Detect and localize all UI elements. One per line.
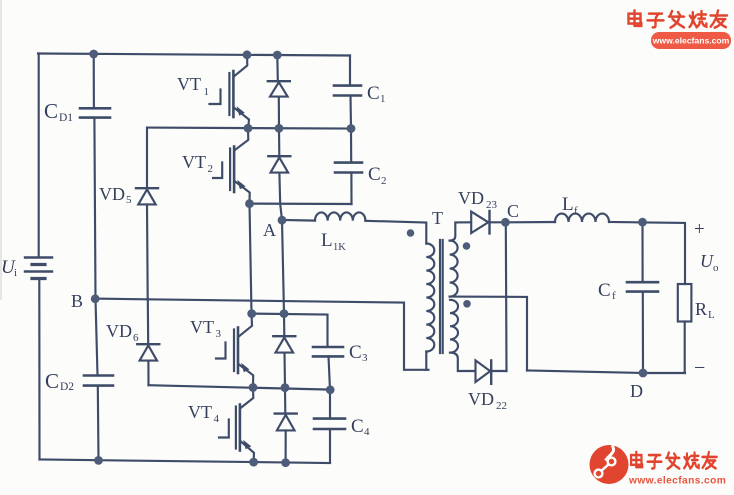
svg-text:C: C xyxy=(351,416,364,437)
svg-text:2: 2 xyxy=(208,163,214,175)
wire node A to L1K xyxy=(282,219,315,222)
node VT1 collector xyxy=(243,50,252,59)
svg-text:3: 3 xyxy=(362,352,368,364)
wire L1K to primary xyxy=(365,221,426,244)
diode VD5 xyxy=(136,188,158,204)
svg-text:5: 5 xyxy=(126,194,132,206)
capacitor C2 column xyxy=(335,129,362,204)
node VT3 collector xyxy=(247,309,256,318)
node D1-D2 xyxy=(275,124,284,133)
node D xyxy=(639,369,648,378)
wire top rail xyxy=(38,54,350,56)
wire CD bus + capacitor CD1 leads xyxy=(93,54,95,108)
node VT2 emitter xyxy=(245,199,254,208)
svg-text:VT: VT xyxy=(177,74,201,94)
node VT3-VT4 xyxy=(249,383,258,392)
wire secondary top lead xyxy=(450,222,471,240)
red box www xyxy=(651,32,731,49)
wire CD bus bottom xyxy=(97,386,100,461)
node A xyxy=(278,216,287,225)
wire Lf to right corner xyxy=(609,222,685,284)
capacitor C1 column xyxy=(334,56,361,129)
svg-text:C: C xyxy=(44,99,58,123)
svg-text:f: f xyxy=(574,205,578,217)
wire chain VT2 emitter to VT3 collector xyxy=(250,204,252,314)
svg-text:−: − xyxy=(694,357,705,379)
node C1-C2 xyxy=(347,124,356,133)
node D1 top xyxy=(273,51,282,60)
wire CD bus mid xyxy=(94,118,97,376)
inductor Lf xyxy=(555,214,609,222)
svg-text:D2: D2 xyxy=(60,381,74,393)
svg-text:www.elecfans.com: www.elecfans.com xyxy=(628,476,726,487)
polarity dot primary xyxy=(407,229,415,237)
wire diode chain A to D3 xyxy=(282,220,284,314)
wire secondary bottom lead xyxy=(450,353,475,371)
transistor VT1 xyxy=(210,55,250,128)
svg-text:D: D xyxy=(630,381,643,401)
wire B rail xyxy=(95,299,429,370)
diode D3 xyxy=(273,314,295,388)
wire left bus lower xyxy=(38,279,40,460)
node C3-C4 xyxy=(326,385,335,394)
svg-text:L: L xyxy=(708,309,715,321)
svg-text:VD: VD xyxy=(458,188,484,208)
node D3-D4 xyxy=(281,383,290,392)
svg-text:1: 1 xyxy=(380,93,386,105)
wire left bus upper xyxy=(38,54,40,258)
svg-text:6: 6 xyxy=(133,332,139,344)
wire RL bottom lead xyxy=(684,322,686,374)
svg-text:C: C xyxy=(367,83,380,104)
svg-text:U: U xyxy=(700,251,714,271)
svg-text:T: T xyxy=(432,208,443,228)
svg-text:B: B xyxy=(71,291,83,311)
svg-text:C: C xyxy=(507,201,519,221)
diode VD6 xyxy=(137,344,159,360)
svg-text:3: 3 xyxy=(216,328,222,340)
capacitor Cf column xyxy=(627,222,658,373)
svg-text:L: L xyxy=(321,230,333,251)
svg-text:L: L xyxy=(562,194,574,215)
transformer secondary upper winding xyxy=(450,241,458,297)
inductor L1K xyxy=(315,212,365,220)
svg-text:C: C xyxy=(368,164,381,185)
svg-text:R: R xyxy=(695,299,707,319)
svg-text:C: C xyxy=(598,280,611,301)
node top-CD1 xyxy=(89,50,98,59)
logo disc xyxy=(590,445,629,484)
svg-text:4: 4 xyxy=(214,413,220,425)
wire link y204 xyxy=(250,203,352,206)
diode D1 xyxy=(268,55,290,128)
svg-text:o: o xyxy=(713,262,719,274)
svg-text:22: 22 xyxy=(496,400,507,412)
capacitor CD1 xyxy=(80,108,110,117)
svg-text:C: C xyxy=(45,369,59,393)
wire output bottom rail xyxy=(527,371,685,374)
svg-text:VD: VD xyxy=(106,321,132,341)
polarity dot secondary lower xyxy=(463,300,471,308)
transformer core xyxy=(440,240,443,353)
wire node C to Lf xyxy=(505,221,555,223)
node D3 top xyxy=(280,309,289,318)
svg-text:www.elecfans.com: www.elecfans.com xyxy=(652,36,730,46)
wire center tap xyxy=(450,297,527,371)
watermark logo bottom right xyxy=(590,445,727,487)
svg-text:f: f xyxy=(612,290,616,302)
wire VD5 lower lead xyxy=(146,204,149,299)
watermark logo top right xyxy=(629,10,732,49)
svg-text:+: + xyxy=(694,219,705,240)
wire VD6 upper lead xyxy=(147,299,150,344)
battery Ui xyxy=(25,258,52,279)
node B xyxy=(91,294,100,303)
svg-text:2: 2 xyxy=(381,175,387,187)
svg-text:VD: VD xyxy=(468,389,494,409)
capacitor C3 column xyxy=(252,314,343,390)
resistor RL xyxy=(678,284,692,322)
node D4 bottom xyxy=(281,458,290,467)
cjk text top right xyxy=(629,10,728,27)
svg-text:4: 4 xyxy=(364,426,370,438)
svg-text:1K: 1K xyxy=(333,242,346,253)
node VT1-VT2 xyxy=(244,124,253,133)
node C xyxy=(501,218,510,227)
polarity dot secondary upper xyxy=(463,242,471,250)
svg-text:C: C xyxy=(349,342,362,363)
capacitor CD2 xyxy=(84,376,113,386)
diode D2 xyxy=(268,128,290,220)
wire VD6 lower lead to midpoint rail xyxy=(147,361,149,386)
svg-text:A: A xyxy=(263,220,276,240)
svg-text:i: i xyxy=(14,267,17,279)
cjk text bottom right xyxy=(631,452,717,469)
capacitor C4 column xyxy=(314,390,345,463)
wire bottom rail xyxy=(40,460,331,464)
transistor VT3 xyxy=(216,314,253,388)
transformer primary winding xyxy=(426,244,434,352)
node CD2 bottom xyxy=(94,456,103,465)
wire midpoint rail xyxy=(149,385,331,389)
svg-text:VT: VT xyxy=(188,402,212,422)
diode VD22 xyxy=(476,360,507,383)
transistor VT2 xyxy=(213,128,250,203)
wire rail y128 xyxy=(147,128,351,129)
svg-text:VT: VT xyxy=(190,317,214,337)
svg-text:23: 23 xyxy=(486,199,498,211)
svg-text:D1: D1 xyxy=(59,112,73,124)
svg-text:VD: VD xyxy=(99,184,125,204)
diode VD23 xyxy=(471,211,505,234)
wire VD5 upper lead xyxy=(146,128,148,188)
svg-text:VT: VT xyxy=(182,152,206,172)
wire primary bottom lead xyxy=(425,352,427,370)
diode D4 xyxy=(275,388,297,463)
transformer secondary lower winding xyxy=(450,300,458,353)
svg-text:1: 1 xyxy=(204,86,210,98)
transistor VT4 xyxy=(219,388,254,462)
node VT4 emitter xyxy=(249,458,258,467)
wire riser VD22 to node C xyxy=(505,222,508,371)
node Cf top xyxy=(638,218,647,227)
